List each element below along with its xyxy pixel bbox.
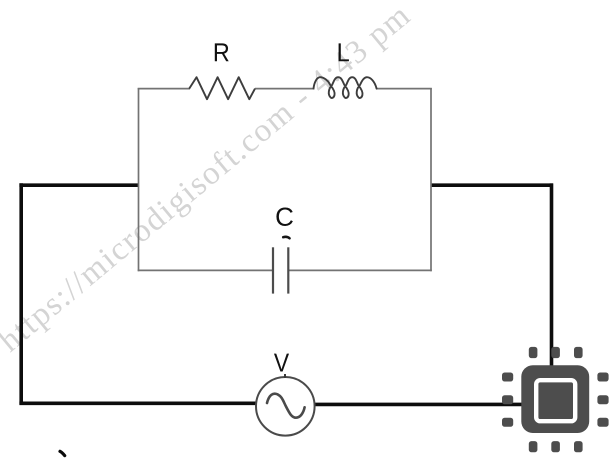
chip U1 body [521, 365, 589, 433]
chip pin top 1 [529, 347, 538, 358]
label C [276, 208, 292, 226]
inductor L [314, 77, 377, 98]
wire source to chip [315, 403, 541, 407]
wire outer loop top-right horizontal [431, 183, 553, 187]
chip pin left 2 [502, 395, 513, 404]
wire outer loop left vertical [19, 183, 23, 404]
sine wave [267, 394, 305, 418]
inner loop right side [430, 88, 432, 271]
wire bottom side left of capacitor [138, 269, 273, 271]
wire right vertical to chip [550, 183, 554, 383]
stray backtick mark [60, 451, 65, 455]
wire top side segment 1 [138, 88, 190, 90]
chip pin left 1 [502, 373, 513, 382]
svg-text:https://microdigisoft.com - 4:: https://microdigisoft.com - 4:43 pm [0, 0, 418, 359]
capacitor C plate left [272, 247, 274, 293]
chip pin bottom 3 [574, 441, 583, 452]
stray mark above capacitor [283, 237, 289, 238]
label R [215, 43, 229, 61]
chip pin right 1 [597, 373, 608, 382]
inner loop left side [138, 88, 140, 271]
source V circle [256, 377, 315, 436]
chip pin bottom 2 [551, 441, 560, 452]
label V [274, 354, 289, 372]
resistor R [189, 77, 255, 99]
chip pin top 3 [574, 347, 583, 358]
chip pin top 2 [551, 347, 560, 358]
chip inner window [536, 380, 575, 421]
wire bottom side right of capacitor [288, 269, 432, 271]
source top tick [284, 374, 286, 378]
wire outer loop top-left horizontal [19, 183, 139, 187]
wire top side segment 3 [376, 88, 432, 90]
chip pin right 3 [597, 418, 608, 427]
wire top side segment 2 [255, 88, 315, 90]
chip pin left 3 [502, 418, 513, 427]
wire outer loop bottom to source [19, 401, 257, 405]
capacitor C plate right [287, 247, 289, 293]
chip pin bottom 1 [529, 441, 538, 452]
chip pin right 2 [597, 395, 608, 404]
label L [339, 43, 349, 61]
